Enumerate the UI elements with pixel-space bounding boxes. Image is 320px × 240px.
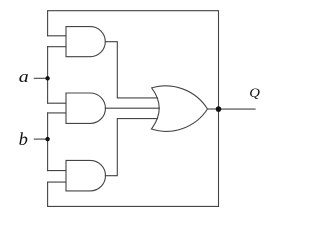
and-gate U3 xyxy=(66,160,106,191)
wire: U1 output to OR input1 xyxy=(105,42,157,98)
wire: OR output to Q node xyxy=(208,108,219,110)
wire: input b lead xyxy=(34,138,47,140)
wire: a vertical bus (U1.in2 to U2.in1) xyxy=(47,47,49,103)
node: input b junction xyxy=(45,137,49,141)
svg-text:a: a xyxy=(19,67,29,86)
or-gate U4 xyxy=(151,86,207,131)
and-gate U2 xyxy=(66,93,105,123)
label: input a xyxy=(19,67,29,86)
svg-text:Q: Q xyxy=(249,86,260,100)
wire: U2 output to OR input2 xyxy=(105,107,159,109)
wire: U1 input2 stub xyxy=(48,46,66,48)
node: input a junction xyxy=(45,76,49,80)
and-gate U1 xyxy=(66,27,105,57)
wire: feedback loop top/right/bottom (Q feedback) xyxy=(48,11,219,207)
node: Q output junction xyxy=(216,106,222,112)
wire: U3 input2 stub from feedback xyxy=(48,181,66,183)
wire: U3 output to OR input3 xyxy=(105,119,157,176)
wire: U3 input1 stub xyxy=(48,170,66,172)
wire: U2 input2 stub xyxy=(48,112,66,114)
wire: b vertical bus (U2.in2 to U3.in1) xyxy=(47,113,49,171)
svg-text:b: b xyxy=(19,129,28,148)
label: input b xyxy=(19,129,28,148)
wire: U1 input1 stub from feedback xyxy=(48,35,66,37)
label: output Q xyxy=(249,86,260,100)
wire: input a lead xyxy=(34,77,47,79)
wire: U2 input1 stub xyxy=(48,102,66,104)
wire: Q output lead xyxy=(219,108,256,110)
